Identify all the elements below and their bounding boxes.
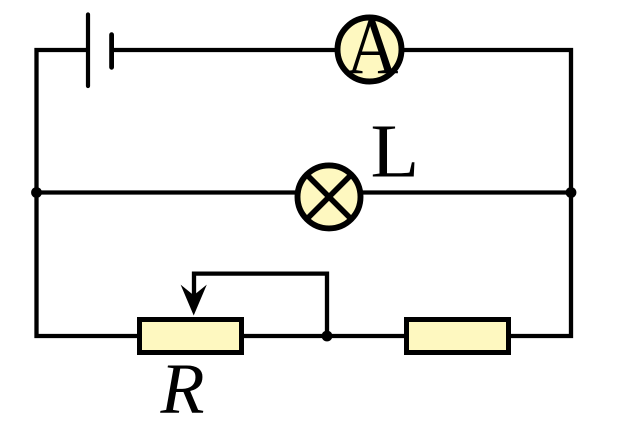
lamp L cross stroke 2 <box>307 175 352 220</box>
rheostat R body <box>140 320 242 353</box>
battery short plate <box>109 35 114 68</box>
lamp L cross stroke 1 <box>307 175 352 220</box>
svg-text:A: A <box>346 4 399 91</box>
node right junction <box>566 187 577 198</box>
ammeter A1 circle <box>338 18 402 82</box>
ammeter A1 letter <box>346 4 399 91</box>
node wiper junction <box>322 331 333 342</box>
wire wiper arm <box>194 274 327 336</box>
svg-text:L: L <box>370 109 419 193</box>
wire middle branch <box>37 190 572 194</box>
node left junction <box>31 187 42 198</box>
battery long plate <box>86 15 90 87</box>
wire outer loop (top, right, bottom, left sides with battery gap) <box>37 50 572 336</box>
lamp L circle <box>298 165 361 228</box>
wiper arrowhead <box>181 285 207 316</box>
label L <box>370 109 419 193</box>
resistor body (right) <box>407 320 509 353</box>
svg-text:R: R <box>160 349 205 429</box>
